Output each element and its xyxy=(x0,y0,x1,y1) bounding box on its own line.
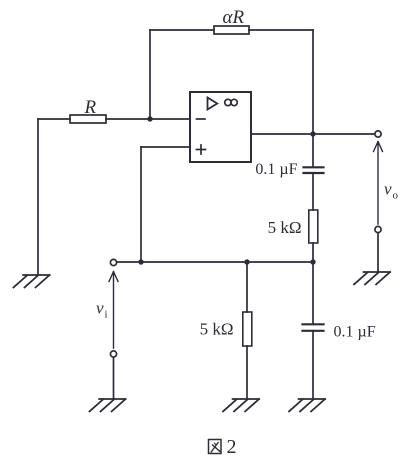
caption zu 2 (figure 2) xyxy=(209,440,222,454)
op-amp minus input label xyxy=(197,118,206,120)
op-amp infinity symbol xyxy=(225,99,231,105)
resistor alphaR body xyxy=(214,26,249,34)
node A junction dot (feedback / minus input) xyxy=(147,116,152,121)
wire R left xyxy=(38,118,70,120)
ground (R3) xyxy=(223,399,259,411)
wire left vertical xyxy=(37,119,39,275)
wire C1 to R2 xyxy=(312,173,314,210)
wire feedback left vertical xyxy=(149,30,151,119)
svg-text:v: v xyxy=(96,299,104,318)
terminal vo open circle xyxy=(375,131,381,137)
node E junction dot (5k branch) xyxy=(244,259,249,264)
terminal vo lower open circle xyxy=(375,226,381,232)
capacitor C1 0.1uF top plate xyxy=(304,166,324,168)
svg-text:5 kΩ: 5 kΩ xyxy=(268,218,302,237)
wire plus input horizontal xyxy=(141,146,190,148)
wire feedback right vertical xyxy=(312,30,314,134)
capacitor C1 0.1uF bottom plate xyxy=(304,172,324,174)
arrow vi xyxy=(109,272,118,349)
op-amp U1 body xyxy=(190,92,251,162)
svg-text:R: R xyxy=(84,97,97,118)
capacitor C2 0.1uF bottom plate xyxy=(303,330,324,332)
wire R2 to bottom node xyxy=(312,243,314,262)
ground (vi) xyxy=(90,399,126,411)
node B junction dot (output) xyxy=(310,131,315,136)
arrow vo xyxy=(374,142,383,225)
svg-text:v: v xyxy=(384,180,392,199)
svg-text:αR: αR xyxy=(223,7,245,28)
svg-text:i: i xyxy=(105,309,108,321)
wire R3 to ground xyxy=(246,346,248,399)
ground (left) xyxy=(14,275,50,287)
wire 5k mid down xyxy=(246,262,248,312)
resistor R1 body xyxy=(70,115,106,123)
ground (vo) xyxy=(354,272,390,284)
svg-text:0.1 µF: 0.1 µF xyxy=(334,324,376,341)
op-amp triangle symbol xyxy=(208,98,218,110)
resistor R2 5k body xyxy=(309,210,318,243)
terminal vi open circle xyxy=(110,259,116,265)
resistor R3 5k body xyxy=(243,312,252,346)
ground (C2) xyxy=(289,399,325,411)
wire node C to capacitor C2 xyxy=(312,262,314,324)
wire C2 to ground xyxy=(312,331,314,399)
svg-text:0.1 µF: 0.1 µF xyxy=(255,161,297,178)
wire feedback top left xyxy=(150,29,214,31)
wire R right to op-amp minus input xyxy=(106,118,190,120)
op-amp plus input label xyxy=(197,145,206,154)
wire vo to ground xyxy=(377,233,379,272)
wire output node to capacitor C1 xyxy=(312,134,314,167)
wire vi to ground xyxy=(113,357,115,399)
terminal vi lower open circle xyxy=(110,351,116,357)
wire output xyxy=(251,133,375,135)
node C junction dot xyxy=(310,259,315,264)
node D junction dot (plus input branch) xyxy=(138,259,143,264)
svg-text:5 kΩ: 5 kΩ xyxy=(200,320,234,339)
wire feedback top right xyxy=(249,29,313,31)
wire bottom horizontal xyxy=(117,261,313,263)
svg-text:o: o xyxy=(393,190,399,202)
capacitor C2 0.1uF top plate xyxy=(303,323,324,325)
wire plus input vertical xyxy=(140,147,142,262)
svg-text:2: 2 xyxy=(227,436,237,458)
